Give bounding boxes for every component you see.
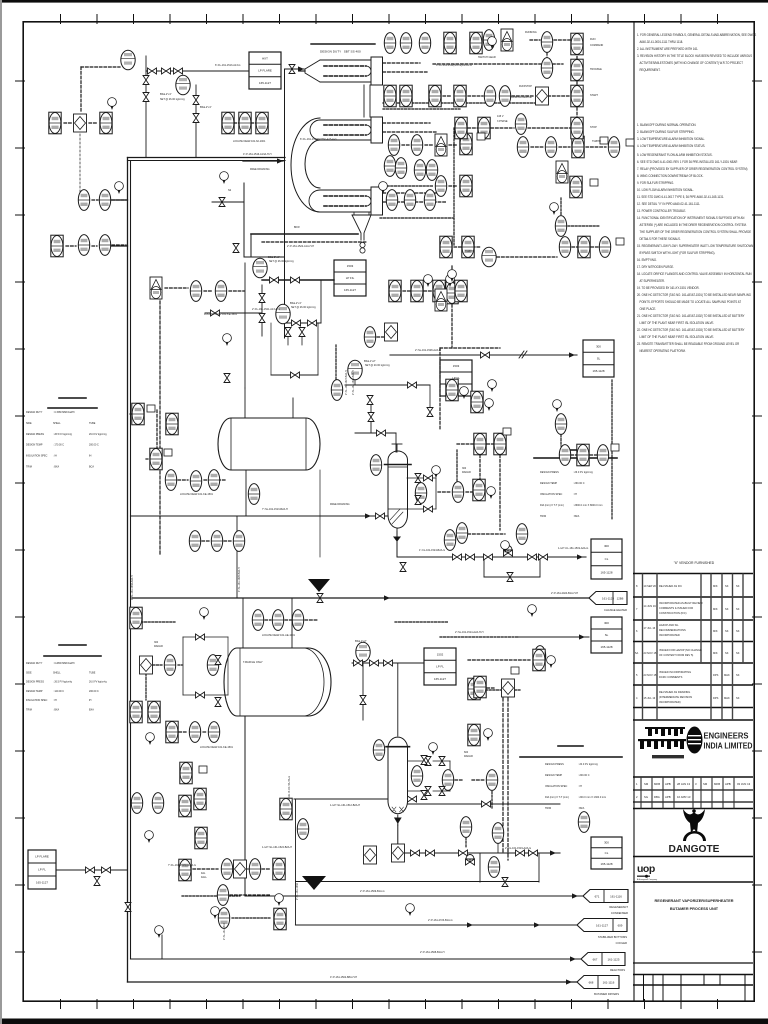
svg-text:20. ONE HC DETECTOR (TAG NO.: 20. ONE HC DETECTOR (TAG NO. 161-AE/AT-1… [637, 293, 751, 297]
svg-text:BS&-1"x2": BS&-1"x2" [364, 360, 376, 363]
svg-text:BCA: BCA [89, 466, 94, 469]
svg-text:2"-SL-161-1528-A2A-H: 2"-SL-161-1528-A2A-H [415, 349, 441, 352]
svg-text:23 NOV 15: 23 NOV 15 [644, 651, 657, 655]
svg-text:NEAREST OPERATING PLATFORM.: NEAREST OPERATING PLATFORM. [640, 349, 686, 353]
svg-text:165-1128: 165-1128 [600, 862, 612, 866]
svg-text:4"-SL-161-1529-B2A-H: 4"-SL-161-1529-B2A-H [238, 567, 241, 592]
svg-text:19. TO BE PROVIDED BY 161-KY-: 19. TO BE PROVIDED BY 161-KY-1501 VENDOR… [637, 286, 700, 290]
svg-text:4"-SL-161-1530-A2A-H: 4"-SL-161-1530-A2A-H [131, 575, 134, 600]
svg-text:ENGINEERS: ENGINEERS [704, 731, 749, 741]
svg-text:SK: SK [725, 607, 729, 611]
svg-text:4. LOW TEMPERATURE ALARM IN: 4. LOW TEMPERATURE ALARM INHIBITION STAT… [637, 144, 705, 148]
svg-text:28 JAN 13: 28 JAN 13 [677, 782, 691, 786]
svg-text:: 260.00 C: : 260.00 C [573, 482, 585, 485]
svg-text:1503: 1503 [347, 264, 354, 268]
svg-text:DIA (mm) X T-T (mm): DIA (mm) X T-T (mm) [545, 796, 569, 799]
svg-text:RUN: RUN [590, 38, 596, 41]
svg-text:1. BLANKOFF DURING NORMAL O: 1. BLANKOFF DURING NORMAL OPERATION. [637, 123, 696, 127]
svg-text:BUTAMER DRYERS: BUTAMER DRYERS [594, 992, 619, 996]
svg-text:LP FLARE: LP FLARE [258, 69, 272, 73]
svg-text:: IH: : IH [578, 785, 582, 788]
svg-text:: IH: : IH [53, 699, 57, 702]
svg-text:300: 300 [596, 344, 601, 348]
svg-text:MIK: MIK [713, 584, 718, 588]
svg-text:10. LOW FLOW ALARM INHIBITION: 10. LOW FLOW ALARM INHIBITION SIGNAL. [637, 188, 694, 192]
svg-text:3 PHASE: 3 PHASE [497, 120, 508, 123]
svg-text:1503: 1503 [453, 364, 460, 368]
svg-text:667: 667 [593, 957, 598, 961]
svg-text:LP FLARE: LP FLARE [35, 855, 49, 859]
svg-text:RUNNING DEVICE: RUNNING DEVICE [510, 96, 532, 99]
svg-text:165-1127: 165-1127 [434, 677, 446, 681]
svg-text:2"-P-161-2024-B1A-H-H: 2"-P-161-2024-B1A-H-H [551, 592, 578, 595]
svg-text:LOCATE NEAR 161-KE-1501: LOCATE NEAR 161-KE-1501 [204, 313, 237, 316]
svg-text:: 26.5 FV kg/cm²g: : 26.5 FV kg/cm²g [53, 433, 73, 436]
svg-text:SET @ 26.00 kg/cm²g: SET @ 26.00 kg/cm²g [291, 306, 316, 309]
svg-text:2"-SL-161-1530: 2"-SL-161-1530 [296, 883, 299, 900]
svg-text:22. ONE HC DETECTOR (TAG NO.: 22. ONE HC DETECTOR (TAG NO. 161-AE/AT-1… [637, 328, 745, 332]
svg-text:MHK: MHK [724, 696, 730, 700]
svg-text:SK: SK [736, 651, 740, 655]
svg-text:TRIM: TRIM [26, 466, 32, 469]
svg-text:165-1127: 165-1127 [36, 881, 48, 885]
svg-text:INCORPORATED): INCORPORATED) [659, 700, 681, 704]
svg-text:FALL: FALL [201, 876, 207, 879]
svg-text:16. EMPTYING.: 16. EMPTYING. [637, 258, 657, 262]
svg-text:FAL: FAL [201, 872, 206, 875]
svg-text:TROUBLE: TROUBLE [590, 68, 602, 71]
svg-text:1-1/2"-SL-161-1524-B2A-H: 1-1/2"-SL-161-1524-B2A-H [262, 846, 292, 849]
svg-text:DESIGN TEMP: DESIGN TEMP [545, 774, 563, 777]
svg-text:: 120.00 C: : 120.00 C [53, 690, 64, 693]
svg-text:BYPASS SWITCH WITH LIGHT (FOR: BYPASS SWITCH WITH LIGHT (FOR SULFUR STR… [640, 251, 716, 255]
svg-text:INSULATION SPEC: INSULATION SPEC [540, 493, 563, 496]
svg-text:200.00 C: 200.00 C [89, 690, 99, 693]
svg-text:: 200.00 C: : 200.00 C [578, 774, 590, 777]
svg-text:APB: APB [665, 782, 671, 786]
svg-text:: IH: : IH [573, 493, 577, 496]
svg-text:COMMAND: COMMAND [590, 44, 603, 47]
svg-text:3. LOW TEMPERATURE ALARM IN: 3. LOW TEMPERATURE ALARM INHIBITION SIGN… [637, 137, 705, 141]
svg-text:RE-ISSUED AS IFC: RE-ISSUED AS IFC [659, 584, 682, 588]
svg-text:LP FL: LP FL [38, 868, 46, 872]
svg-text:INSULATION SPEC: INSULATION SPEC [545, 785, 568, 788]
svg-text:6"-FL-161-1512(NOTE)A13-A-G: 6"-FL-161-1512(NOTE)A13-A-G [436, 64, 472, 67]
svg-text:CHANGE HEATER: CHANGE HEATER [604, 608, 627, 612]
svg-text:BS&-2"x1": BS&-2"x1" [200, 106, 212, 109]
svg-text:LIMIT OF THE PLANT NEAR FIRST: LIMIT OF THE PLANT NEAR FIRST ISL ISOLAT… [640, 335, 715, 339]
svg-text:1-1/2"-SL-161-1512-B2A-H: 1-1/2"-SL-161-1512-B2A-H [330, 804, 360, 807]
svg-text:HXT: HXT [262, 56, 268, 60]
svg-text:COOLER: COOLER [616, 941, 627, 945]
svg-text:BS&-1"x2": BS&-1"x2" [355, 640, 367, 643]
svg-text:TUBE: TUBE [89, 422, 96, 425]
svg-text:CONSTRUCTION (IFC): CONSTRUCTION (IFC) [659, 611, 687, 615]
svg-text:9. FOR SULFUR STRIPPING.: 9. FOR SULFUR STRIPPING. [637, 181, 674, 185]
svg-text:INSULATION SPEC: INSULATION SPEC [26, 699, 48, 702]
svg-text:MIK: MIK [713, 607, 718, 611]
svg-text:14 JUN 19: 14 JUN 19 [644, 604, 657, 608]
svg-text:4"-P-161-1502-B8A-H-H: 4"-P-161-1502-B8A-H-H [330, 976, 357, 979]
svg-text:200.00 C: 200.00 C [89, 444, 99, 447]
svg-text:2"-SL-161-1516: 2"-SL-161-1516 [223, 923, 226, 940]
svg-text:18. LOCATE ORIFICE FLANGES AN: 18. LOCATE ORIFICE FLANGES AND CONTROL V… [637, 272, 752, 276]
svg-text:DESIGN PRESS: DESIGN PRESS [26, 433, 44, 436]
svg-text:: 200.0 mm X 1300.0 mm: : 200.0 mm X 1300.0 mm [578, 796, 606, 799]
svg-text:DESIGN TEMP: DESIGN TEMP [540, 482, 558, 485]
svg-text:13. POWER CONTROLLER TROUBLE.: 13. POWER CONTROLLER TROUBLE. [637, 209, 686, 213]
svg-text:SL: SL [605, 633, 609, 637]
svg-text:BS&-2"x1": BS&-2"x1" [160, 93, 172, 96]
svg-text:26.0 FV kg/cm²g: 26.0 FV kg/cm²g [89, 433, 107, 436]
svg-text:SIDE: SIDE [26, 422, 32, 425]
svg-text:SHELL: SHELL [53, 671, 61, 674]
svg-text:MIK: MIK [713, 651, 718, 655]
svg-text:6. SEE STD DWG 6-41-0001 RE: 6. SEE STD DWG 6-41-0001 REV 1 FOR 36 PR… [637, 160, 738, 164]
svg-text:FREE DRAINING: FREE DRAINING [250, 168, 270, 171]
svg-text:: 26.0 FV kg/cm²g: : 26.0 FV kg/cm²g [573, 471, 593, 474]
svg-text:SK: SK [725, 629, 729, 633]
svg-text:2"-CL-161-1519-A2A-G: 2"-CL-161-1519-A2A-G [505, 847, 531, 850]
svg-text:TGBHH: TGBHH [592, 140, 601, 143]
svg-text:161-1128: 161-1128 [602, 596, 614, 600]
svg-text:2"-SL-161-1514-A2A-H-H: 2"-SL-161-1514-A2A-H-H [455, 631, 484, 634]
svg-text:5. LOW REGENERANT FLOW ALAR: 5. LOW REGENERANT FLOW ALARM INHIBITION … [637, 153, 713, 157]
svg-text:DESIGN PRESS: DESIGN PRESS [545, 763, 564, 766]
svg-text:RECOMMENDATIONS: RECOMMENDATIONS [659, 628, 686, 632]
svg-text:REGENERANT VAPORIZER/SUPERHEAT: REGENERANT VAPORIZER/SUPERHEATER [655, 899, 734, 903]
svg-text:ASTERISK (*) ARE INCLUDED IN T: ASTERISK (*) ARE INCLUDED IN THE DRIER R… [640, 223, 747, 227]
svg-text:: 0.1580 MMKCal/Hr: : 0.1580 MMKCal/Hr [53, 411, 75, 414]
svg-text:: 26.5 FV kg/cm²g: : 26.5 FV kg/cm²g [53, 681, 73, 684]
svg-text:6"-FL-161-1512(NOTE)-A13-A-G: 6"-FL-161-1512(NOTE)-A13-A-G [300, 138, 337, 141]
svg-text:CL: CL [605, 557, 609, 561]
svg-text:: BXA: : BXA [53, 709, 60, 712]
svg-text:6"-FL-161-1513-A13-G: 6"-FL-161-1513-A13-G [215, 64, 241, 67]
svg-text:COMMENTS & ISSUED FOR: COMMENTS & ISSUED FOR [659, 606, 693, 610]
svg-text:15. REGENERANT LOW FLOW / SUP: 15. REGENERANT LOW FLOW / SUPERHEATER IN… [637, 244, 753, 248]
svg-text:(INTERMEDIATE REVISION: (INTERMEDIATE REVISION [659, 695, 692, 699]
svg-text:"6" VENDOR FURNISHED: "6" VENDOR FURNISHED [674, 561, 715, 565]
svg-text:2"-SL-161-1527-B2A-H: 2"-SL-161-1527-B2A-H [345, 370, 348, 395]
svg-text:SK: SK [736, 673, 740, 677]
svg-text:POINTS. EFFORTS SHOULD BE MADE: POINTS. EFFORTS SHOULD BE MADE TO LOCATE… [640, 300, 742, 304]
svg-text:14. FUNCTIONAL IDENTIFICATION: 14. FUNCTIONAL IDENTIFICATION OF INSTRUM… [637, 216, 744, 220]
svg-text:APB: APB [725, 782, 731, 786]
svg-text:ONE PLACE.: ONE PLACE. [640, 307, 657, 311]
svg-text:LOCATE NEAR 161-KE-1501: LOCATE NEAR 161-KE-1501 [180, 493, 213, 496]
svg-text:THE SUPPLIER OF THE DRIER REGE: THE SUPPLIER OF THE DRIER REGENERATION C… [640, 230, 752, 234]
svg-text:DANGOTE: DANGOTE [669, 844, 720, 855]
svg-text:INCORPORATED: INCORPORATED [659, 633, 680, 637]
svg-text:12. SEE DETAIL "V" IN PIPD A6: 12. SEE DETAIL "V" IN PIPD A640-02-41-16… [637, 202, 700, 206]
svg-text:4"-P-161-1516-A13A-H-H: 4"-P-161-1516-A13A-H-H [243, 153, 272, 156]
svg-text:INDIA LIMITED: INDIA LIMITED [704, 741, 753, 751]
svg-text:21. ONE HC DETECTOR (TAG NO.: 21. ONE HC DETECTOR (TAG NO. 161-AE/AT-1… [637, 314, 745, 318]
svg-text:TUBE: TUBE [89, 671, 96, 674]
svg-text:DPS: DPS [713, 673, 719, 677]
svg-text:DIA (mm) X T-T (mm): DIA (mm) X T-T (mm) [540, 504, 564, 507]
svg-text:LOCATE NEAR 161-62-1001: LOCATE NEAR 161-62-1001 [233, 140, 266, 143]
svg-text:: BZA: : BZA [573, 515, 580, 518]
svg-text:DESIGN DUTY: DESIGN DUTY [26, 662, 43, 665]
svg-text:DCRC COMMENTS: DCRC COMMENTS [659, 675, 683, 679]
svg-text:SK: SK [725, 651, 729, 655]
svg-text:: 20.0 FV kg/cm²g: : 20.0 FV kg/cm²g [578, 763, 598, 766]
svg-text:DESIGN PRESS: DESIGN PRESS [540, 471, 559, 474]
svg-text:415 V: 415 V [497, 115, 504, 118]
svg-text:161-1116: 161-1116 [603, 980, 615, 984]
svg-text:RADAR: RADAR [154, 645, 163, 648]
svg-text:600: 600 [464, 751, 469, 754]
svg-text:SG: SG [644, 795, 648, 799]
svg-text:2"-SL-161-1526-B2A-H: 2"-SL-161-1526-B2A-H [352, 370, 355, 395]
svg-text:165-1128: 165-1128 [600, 645, 612, 649]
svg-text:26.0 FV kg/cm²g: 26.0 FV kg/cm²g [89, 681, 107, 684]
svg-text:SIDE: SIDE [26, 671, 32, 674]
svg-text:DETAILS FOR THESE SIGNALS.: DETAILS FOR THESE SIGNALS. [640, 237, 681, 241]
svg-text:FREE DRAINING: FREE DRAINING [330, 503, 350, 506]
svg-text:165-1127: 165-1127 [344, 288, 356, 292]
svg-text:300: 300 [604, 621, 609, 625]
svg-text:LOCATE NEAR 161-KE-1501: LOCATE NEAR 161-KE-1501 [200, 746, 233, 749]
svg-text:BS&-2"x1": BS&-2"x1" [268, 256, 280, 259]
svg-text:15 JUL 13: 15 JUL 13 [644, 696, 656, 700]
svg-text:SK: SK [736, 584, 740, 588]
svg-text:TRIM: TRIM [545, 807, 551, 810]
svg-text:: IH: : IH [53, 455, 57, 458]
svg-text:161-1116: 161-1116 [610, 894, 622, 898]
svg-text:2"-P-161-1508-B1A-H: 2"-P-161-1508-B1A-H [420, 951, 445, 954]
svg-text:668: 668 [589, 980, 594, 984]
svg-text:SHELL: SHELL [53, 422, 61, 425]
svg-text:300: 300 [604, 841, 609, 845]
svg-text:SK: SK [725, 584, 729, 588]
svg-text:RE-ISSUED AS DRAWING: RE-ISSUED AS DRAWING [659, 690, 690, 694]
svg-text:03 JUN 13: 03 JUN 13 [737, 782, 751, 786]
svg-text:: BXA: : BXA [53, 466, 60, 469]
svg-text:STOP: STOP [590, 126, 597, 129]
svg-text:2"-P-161-1509-B1A-G: 2"-P-161-1509-B1A-G [360, 890, 385, 893]
svg-text:ACTIVITIES/MILESTONES (WITH NO: ACTIVITIES/MILESTONES (WITH NO CHANGE OF… [640, 61, 744, 65]
svg-text:671: 671 [595, 894, 600, 898]
svg-text:2"-P-161-1522-A1A-H-H: 2"-P-161-1522-A1A-H-H [287, 245, 314, 248]
svg-text:MHK: MHK [724, 673, 730, 677]
svg-text:uop: uop [637, 863, 655, 875]
svg-text:STABILIZER BOTTOMS: STABILIZER BOTTOMS [598, 935, 627, 939]
svg-text:17 JUL 16: 17 JUL 16 [644, 626, 656, 630]
svg-text:1. FOR GENERAL LEGEND SYMBOLS,: 1. FOR GENERAL LEGEND SYMBOLS, GENERAL D… [637, 33, 756, 37]
svg-text:REACTORS: REACTORS [610, 968, 625, 972]
svg-text:LP FL: LP FL [436, 665, 444, 669]
svg-text:7"-FL-161-1513(A13)A-G: 7"-FL-161-1513(A13)A-G [168, 864, 196, 867]
svg-text:1"-CL-161-1524-B2A-G: 1"-CL-161-1524-B2A-G [419, 549, 445, 552]
svg-text:DBA: DBA [654, 795, 660, 799]
svg-text:RUNNING: RUNNING [525, 31, 537, 34]
svg-text:IH: IH [89, 699, 92, 702]
svg-text:SK: SK [736, 607, 740, 611]
svg-text:1-1/2"-CL-161-1519-A2A-G: 1-1/2"-CL-161-1519-A2A-G [558, 547, 588, 550]
svg-text:: 170.00 C: : 170.00 C [53, 444, 64, 447]
svg-text:BUTAMER PROCESS UNIT: BUTAMER PROCESS UNIT [670, 907, 719, 911]
svg-text:SK: SK [736, 696, 740, 700]
svg-text:LP FIL: LP FIL [346, 276, 355, 280]
svg-text:OF CONTENT FROM REV 5): OF CONTENT FROM REV 5) [659, 653, 693, 657]
svg-text:MKB: MKB [654, 782, 660, 786]
svg-text:CONDENSER: CONDENSER [611, 911, 628, 915]
svg-text:RADAR: RADAR [462, 471, 471, 474]
svg-text:2"-P-161-2723-B1A-G: 2"-P-161-2723-B1A-G [428, 919, 453, 922]
svg-text:12B6: 12B6 [617, 596, 624, 600]
svg-text:: 2600.0 mm X 8000.0 mm: : 2600.0 mm X 8000.0 mm [573, 504, 602, 507]
svg-text:: 0.2800 MMKCal/Hr: : 0.2800 MMKCal/Hr [53, 662, 75, 665]
svg-text:16 APR 13: 16 APR 13 [677, 795, 691, 799]
svg-text:START: START [590, 94, 598, 97]
svg-text:SET @ 26.00 kg/cm²g: SET @ 26.00 kg/cm²g [160, 98, 185, 101]
svg-text:HAZOP AND SIL: HAZOP AND SIL [659, 623, 679, 627]
svg-text:3. REVISION HISTORY IN THE TIT: 3. REVISION HISTORY IN THE TITLE BLOCK H… [637, 54, 752, 58]
svg-text:T-BAFFLE ONLY: T-BAFFLE ONLY [243, 660, 263, 664]
svg-text:MKB: MKB [714, 782, 720, 786]
svg-text:LOCATE NEAR 161-AE-1001: LOCATE NEAR 161-AE-1001 [262, 634, 295, 637]
svg-text:2. ALL INSTRUMENT ARE PREFIXED: 2. ALL INSTRUMENT ARE PREFIXED WITH 161. [637, 47, 698, 51]
svg-text:MIK: MIK [713, 629, 718, 633]
svg-text:INCORPORATED AS-BUILT REVIEW: INCORPORATED AS-BUILT REVIEW [659, 601, 703, 605]
svg-text:23 NOV 15: 23 NOV 15 [644, 673, 657, 677]
svg-text:DESIGN TEMP: DESIGN TEMP [26, 444, 43, 447]
svg-text:11. SEE STD DWG 6-41-0017 TYP: 11. SEE STD DWG 6-41-0017 TYPE 5, 36 PIP… [637, 195, 724, 199]
svg-text:DESIGN TEMP: DESIGN TEMP [26, 690, 43, 693]
svg-text:REGENERANT: REGENERANT [609, 905, 628, 909]
svg-text:TRIM: TRIM [540, 515, 546, 518]
svg-text:REQUIREMENT.: REQUIREMENT. [640, 68, 661, 72]
svg-text:165-1127: 165-1127 [259, 81, 271, 85]
svg-text:F RIG IS OK HA-HA-G: F RIG IS OK HA-HA-G [288, 776, 291, 800]
svg-text:300: 300 [604, 544, 609, 548]
svg-text:ISSUED INCORPORATING: ISSUED INCORPORATING [659, 670, 691, 674]
svg-text:LIMIT OF THE PLANT NEAR FIRST: LIMIT OF THE PLANT NEAR FIRST ISL ISOLAT… [640, 321, 715, 325]
svg-text:165-1128: 165-1128 [592, 369, 604, 373]
svg-text:AT SUPERHEATER.: AT SUPERHEATER. [640, 279, 665, 283]
svg-text:BXA: BXA [89, 709, 94, 712]
svg-text:A Honeywell Company: A Honeywell Company [637, 878, 657, 881]
svg-text:8. WING CONNECTION DOWNSTRE: 8. WING CONNECTION DOWNSTREAM OF BLOCK. [637, 174, 703, 178]
svg-text:DESIGN PRESS: DESIGN PRESS [26, 681, 44, 684]
svg-text:5A: 5A [635, 651, 638, 655]
svg-text:DESIGN DUTY: DESIGN DUTY [26, 411, 43, 414]
svg-text:SL: SL [597, 357, 601, 361]
svg-text:BFW: BFW [294, 226, 300, 229]
svg-text:CL: CL [605, 851, 609, 855]
svg-text:ISSUED FOR HAZOP (NO CHANGE: ISSUED FOR HAZOP (NO CHANGE [659, 648, 702, 652]
svg-text:DPS: DPS [713, 696, 719, 700]
svg-text:23. REMOTE TRANSMITTER SHALL: 23. REMOTE TRANSMITTER SHALL BE READABLE… [637, 342, 740, 346]
svg-text:SM: SM [644, 782, 649, 786]
svg-text:A640-02-41-0001-1111 THRU 1118: A640-02-41-0001-1111 THRU 1118. [640, 40, 684, 44]
svg-text:161-1127: 161-1127 [596, 923, 608, 927]
svg-text:165-1128: 165-1128 [600, 571, 612, 575]
svg-text:IH: IH [89, 455, 92, 458]
svg-text:609: 609 [618, 923, 623, 927]
svg-text:SWITCH GEAR: SWITCH GEAR [478, 56, 496, 59]
svg-text:161-1125: 161-1125 [607, 957, 619, 961]
svg-text:APB: APB [665, 795, 671, 799]
svg-text:: BZA: : BZA [578, 807, 585, 810]
svg-text:2"-FL-161-1521-A13-A-G: 2"-FL-161-1521-A13-A-G [252, 308, 280, 311]
svg-text:TRIM: TRIM [26, 709, 32, 712]
svg-text:RUN/STOP: RUN/STOP [519, 85, 532, 88]
svg-text:7. RELAY (PROVIDED BY SUPPL: 7. RELAY (PROVIDED BY SUPPLIER OF DRIER … [637, 167, 747, 171]
svg-text:SM: SM [703, 782, 708, 786]
svg-text:SET @ 20.00 kg/cm²g: SET @ 20.00 kg/cm²g [365, 364, 390, 367]
svg-text:19 SEP 20: 19 SEP 20 [644, 584, 657, 588]
svg-text:DESIGN DUTY SBT SS 400: DESIGN DUTY SBT SS 400 [320, 50, 361, 54]
svg-text:TGBHH: TGBHH [465, 250, 474, 253]
svg-text:SK: SK [736, 629, 740, 633]
svg-text:SET @ 26.00 kg/cm²g: SET @ 26.00 kg/cm²g [269, 260, 294, 263]
svg-text:17. DRY NITROGEN PURGE.: 17. DRY NITROGEN PURGE. [637, 265, 674, 269]
svg-text:300: 300 [154, 641, 159, 644]
svg-text:300: 300 [462, 467, 467, 470]
svg-text:RADAR: RADAR [464, 755, 473, 758]
svg-text:INSULATION SPEC: INSULATION SPEC [26, 455, 48, 458]
svg-text:BS&-2"x1": BS&-2"x1" [290, 302, 302, 305]
svg-text:2. BLANKOFF DURING SULFUR S: 2. BLANKOFF DURING SULFUR STRIPPING. [637, 130, 695, 134]
svg-text:1502: 1502 [437, 652, 444, 656]
svg-text:7"-SL-161-1513-B2A-H: 7"-SL-161-1513-B2A-H [262, 508, 288, 511]
